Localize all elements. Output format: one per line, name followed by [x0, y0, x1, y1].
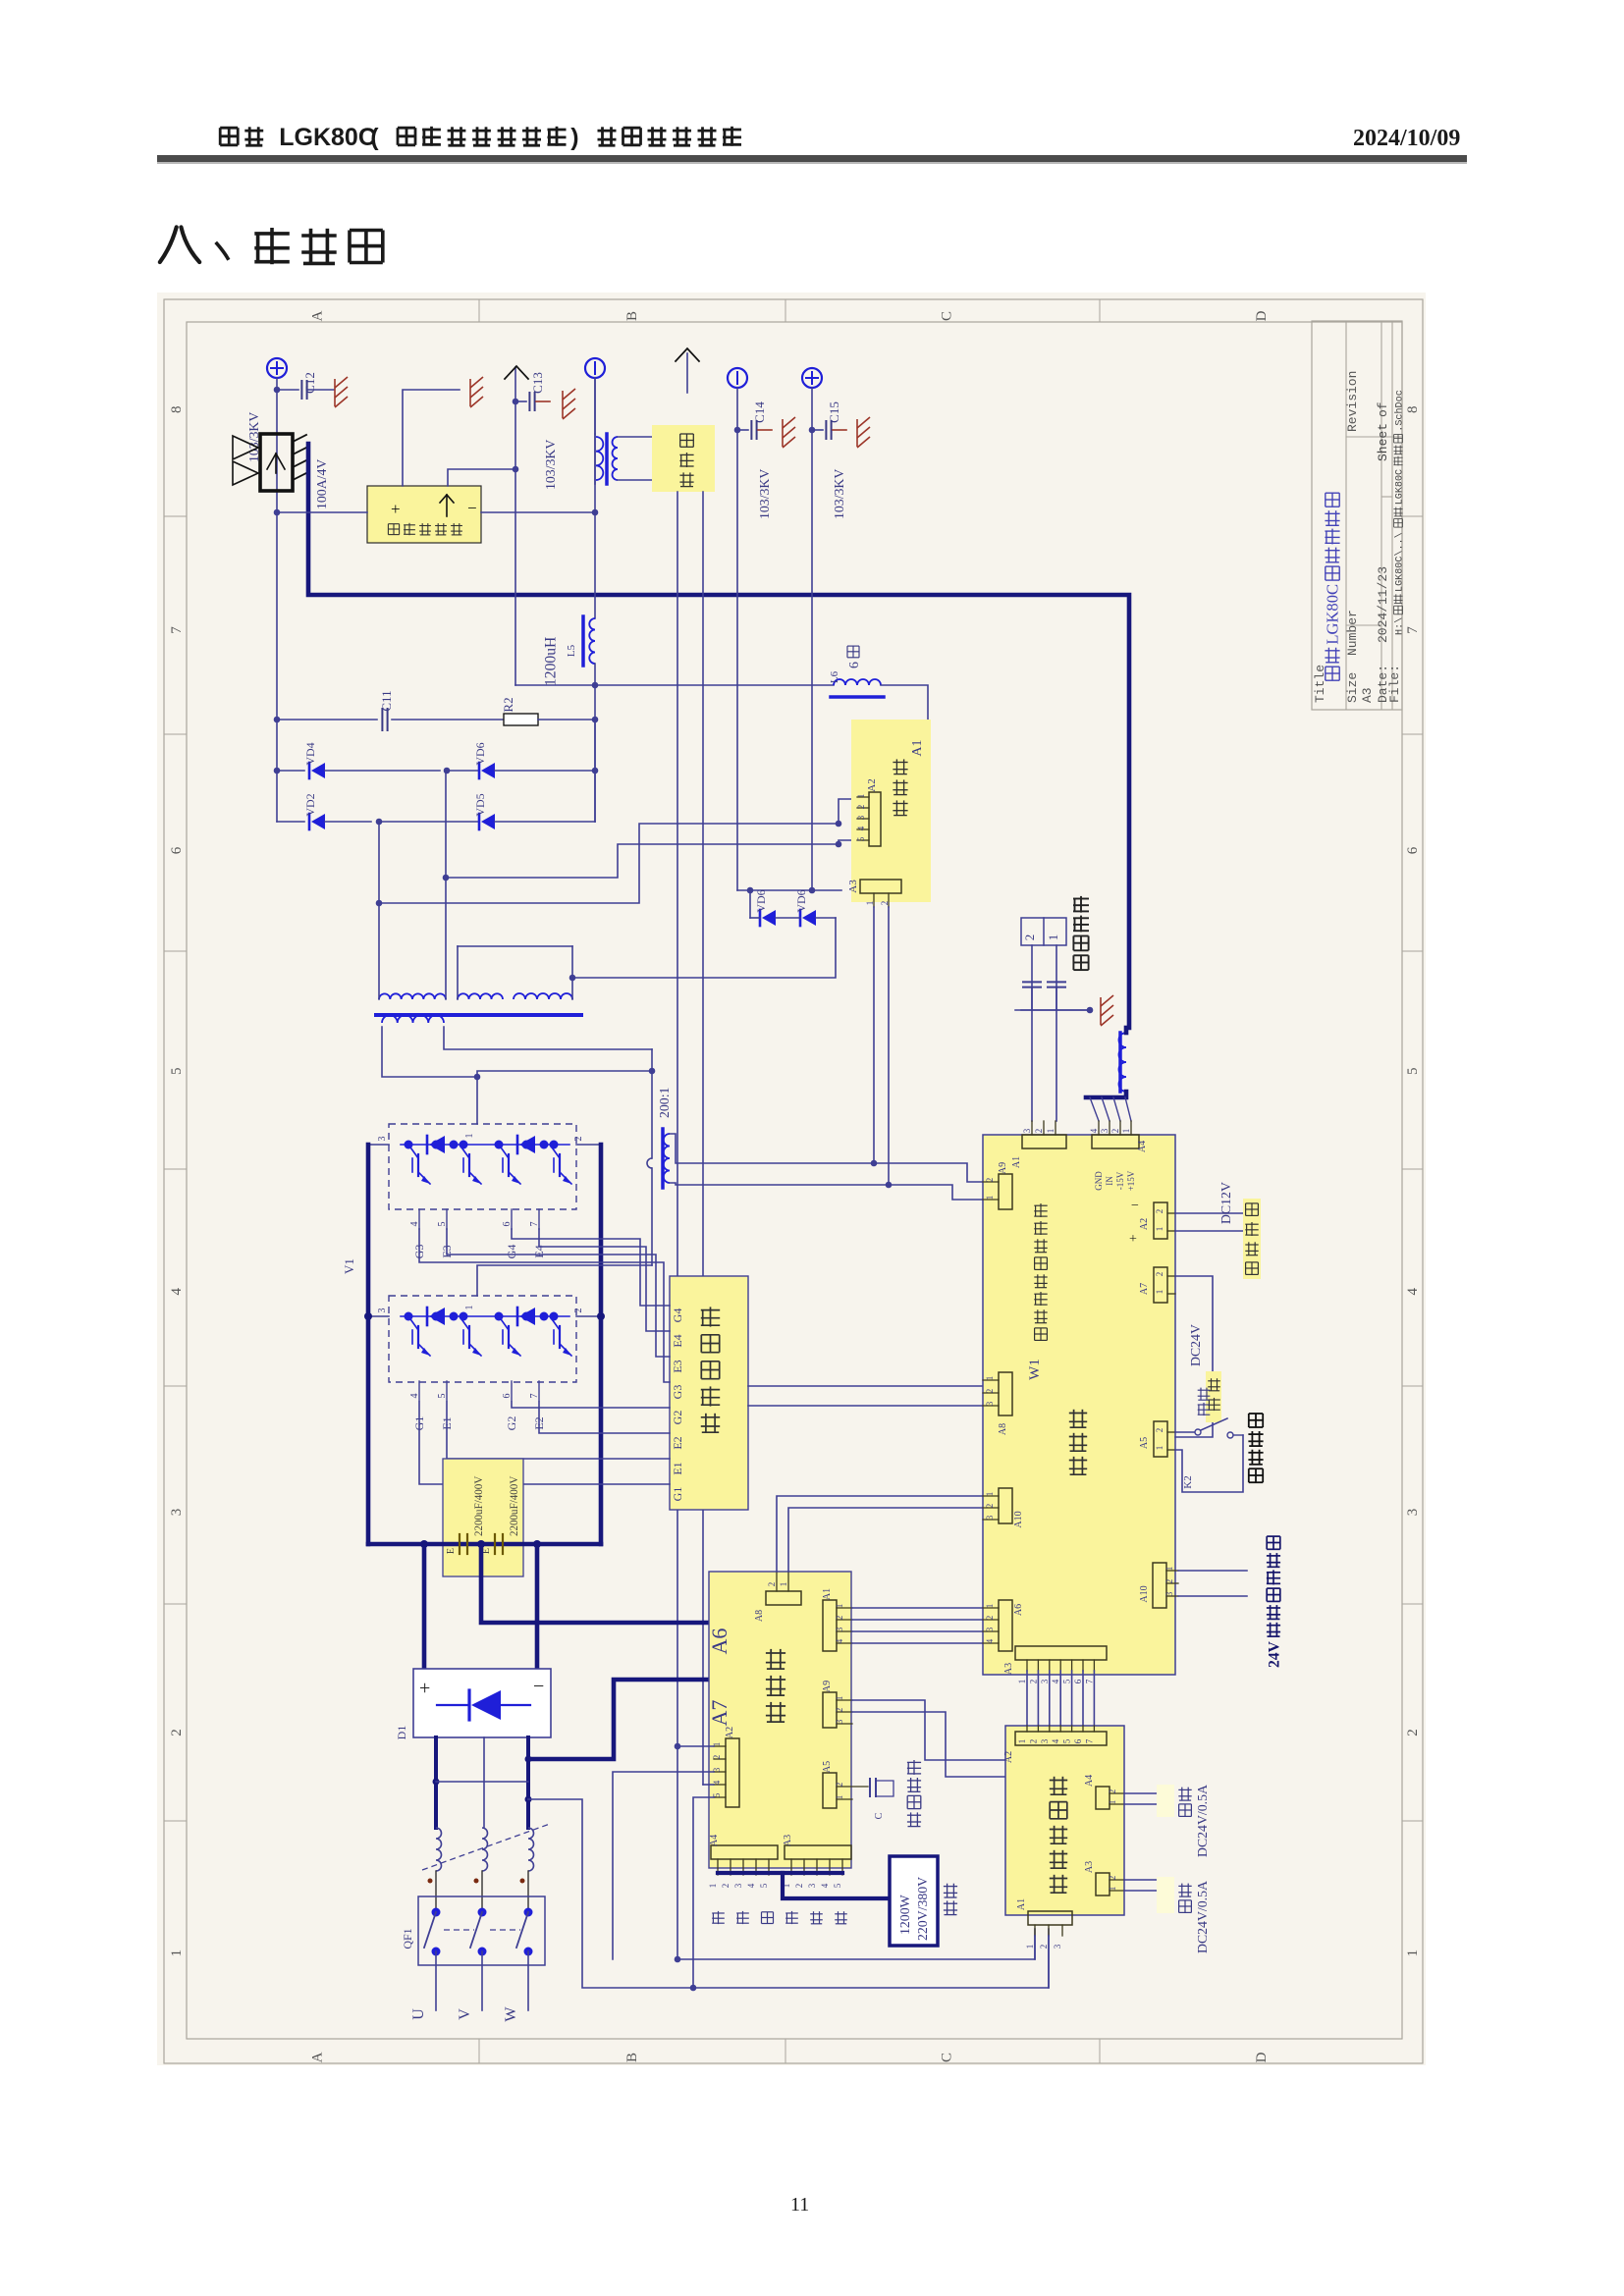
wire main A3 to PSU A2	[1049, 1671, 1051, 1726]
svg-text:4: 4	[856, 826, 866, 830]
svg-text:7: 7	[1084, 1738, 1094, 1743]
svg-text:7: 7	[529, 1222, 540, 1227]
svg-text:3: 3	[1040, 1679, 1050, 1683]
wire main A3 to PSU A2	[1037, 1671, 1039, 1726]
svg-text:LGK80C: LGK80C	[1395, 469, 1406, 505]
conv board connector A9 right	[823, 1692, 837, 1728]
thick bus from rectifier	[308, 444, 1129, 1028]
transformer tap wires	[378, 822, 380, 999]
svg-text:A5: A5	[822, 1761, 833, 1773]
conv board connector A5 right	[823, 1773, 837, 1808]
svg-text:6: 6	[846, 662, 861, 668]
conversion board 转换板	[709, 1572, 851, 1868]
svg-text:2: 2	[1108, 1789, 1117, 1794]
diode inside D1	[467, 1690, 470, 1720]
main board connector A10 right	[1153, 1563, 1166, 1608]
svg-text:1200W: 1200W	[897, 1895, 912, 1935]
svg-text:1: 1	[464, 1134, 475, 1139]
wire PSU A1 pin2 down	[1048, 1936, 1050, 1988]
plus output terminal	[267, 358, 287, 378]
thermal switch K2	[1175, 1431, 1194, 1433]
svg-text:2: 2	[573, 1137, 584, 1142]
module1 pin1 wire to CT	[477, 1071, 651, 1124]
svg-text:2: 2	[985, 1616, 995, 1621]
svg-text:1: 1	[1405, 1949, 1421, 1957]
svg-text:Revision: Revision	[1345, 371, 1360, 432]
svg-text:2: 2	[1108, 1876, 1117, 1881]
svg-text:1: 1	[1108, 1800, 1117, 1805]
svg-text:6: 6	[169, 846, 185, 854]
svg-text:VD6: VD6	[473, 742, 487, 765]
main board connector A7 right	[1154, 1267, 1167, 1303]
socket filter cap 1	[1023, 981, 1041, 983]
IGBT transistor pair	[408, 1145, 418, 1158]
module2 gate wires to driver board	[512, 1402, 670, 1408]
svg-text:2024/11/23: 2024/11/23	[1376, 566, 1390, 643]
svg-text:−: −	[1131, 1199, 1139, 1213]
module pin 2	[576, 1144, 601, 1146]
module bottom pins	[418, 1381, 420, 1401]
svg-text:4: 4	[1051, 1679, 1060, 1683]
thick pump bus under connectors	[718, 1871, 842, 1875]
svg-text:2: 2	[712, 1755, 722, 1760]
wire arc board A3 pin2 down	[888, 907, 890, 1185]
svg-text:D: D	[1254, 2052, 1270, 2062]
switching PSU board 开关电源板	[1005, 1726, 1124, 1915]
svg-text:2: 2	[985, 1389, 995, 1394]
svg-text:+: +	[1129, 1232, 1137, 1247]
conv board connector A8 top	[766, 1591, 801, 1605]
wire socket pin1 down to main board	[1056, 945, 1057, 1121]
svg-text:2: 2	[985, 1504, 995, 1509]
svg-text:6: 6	[502, 1222, 513, 1227]
diode VD6a	[444, 768, 451, 774]
frame inner border	[187, 322, 1402, 2039]
svg-text:4: 4	[409, 1222, 420, 1227]
svg-text:2: 2	[1028, 1739, 1038, 1744]
plus terminal 2	[802, 368, 822, 388]
wire conv A9 pin1 to PSU	[852, 1700, 1005, 1760]
svg-text:): )	[570, 124, 578, 151]
svg-text:4: 4	[1089, 1128, 1099, 1133]
thermal switch return wire	[1175, 1435, 1243, 1492]
wires A2 to HF control	[1175, 1212, 1243, 1214]
svg-text:3: 3	[985, 1401, 995, 1406]
wire arc board A3 pin1 down	[873, 907, 875, 1163]
svg-text:C15: C15	[827, 401, 841, 423]
torch electrode antenna C13 line	[514, 367, 516, 469]
wires to fan 1	[1124, 1792, 1157, 1794]
svg-text:G4: G4	[671, 1308, 684, 1323]
thick wire plus to D1	[422, 1544, 427, 1669]
capacitor C14	[737, 429, 748, 431]
svg-text:L5: L5	[566, 644, 577, 657]
svg-text:2: 2	[835, 1783, 844, 1788]
svg-text:1: 1	[835, 1696, 844, 1701]
thick wire to pump	[783, 1873, 891, 1898]
svg-text:-15V: -15V	[1115, 1171, 1125, 1190]
svg-text:2: 2	[1110, 1129, 1120, 1134]
svg-text:A10: A10	[1139, 1585, 1150, 1602]
inductor L5 1200uH	[581, 616, 585, 666]
svg-text:1: 1	[708, 1884, 718, 1889]
svg-text:6: 6	[1073, 1738, 1083, 1743]
CT primary line	[651, 1049, 653, 1158]
wire link row below D1	[436, 1781, 528, 1783]
wires conv A8 up to main board A10	[777, 1496, 983, 1572]
wire HF1 to conv A2 pin1	[677, 1745, 714, 1747]
wire conv A9 pin2 to PSU	[852, 1712, 1005, 1777]
main board connector A4 top	[1092, 1135, 1139, 1148]
svg-text:3: 3	[835, 1627, 844, 1631]
torch tip arrow	[686, 353, 688, 393]
svg-text:3: 3	[807, 1883, 817, 1888]
PSU connector A4 right	[1096, 1787, 1110, 1809]
svg-text:B: B	[624, 311, 640, 321]
svg-text:+: +	[391, 500, 401, 518]
wire C15 line down	[811, 388, 813, 890]
capacitor C 2200uF/400V right	[494, 1534, 496, 1554]
svg-text:H:\: H:\	[1394, 617, 1406, 635]
svg-text:DC24V: DC24V	[1188, 1324, 1203, 1366]
thick wire minus to D1	[535, 1544, 540, 1669]
module pin 2	[576, 1315, 601, 1317]
title block	[1312, 321, 1402, 710]
svg-text:E: E	[446, 1548, 457, 1554]
svg-text:6: 6	[1405, 846, 1421, 854]
document header	[220, 128, 238, 145]
main board connector A2 right	[1154, 1202, 1167, 1239]
svg-text:7: 7	[1405, 626, 1421, 634]
wire R2 to node	[538, 719, 595, 721]
breaker QF1	[418, 1896, 545, 1965]
svg-text:4: 4	[409, 1394, 420, 1399]
thick wire to conversion board A7	[528, 1680, 709, 1759]
svg-text:A10: A10	[1013, 1511, 1024, 1527]
rectifier bridge 100A/4V	[260, 434, 293, 491]
svg-text:7: 7	[169, 626, 185, 634]
svg-text:A3: A3	[847, 880, 859, 893]
aviation socket 航空插座	[1021, 918, 1066, 945]
svg-text:1: 1	[985, 1492, 995, 1497]
wire W tap to pump circuit	[528, 1799, 1049, 1988]
capacitor C13	[513, 399, 519, 405]
svg-text:3: 3	[733, 1883, 743, 1888]
svg-text:1: 1	[1108, 1887, 1117, 1892]
svg-text:A9: A9	[998, 1162, 1008, 1174]
svg-text:1: 1	[1155, 1446, 1164, 1451]
wire L6 to arc board	[881, 685, 928, 720]
svg-text:2: 2	[835, 1616, 844, 1621]
svg-text:103/3KV: 103/3KV	[757, 469, 772, 519]
svg-text:2024/10/09: 2024/10/09	[1353, 126, 1460, 151]
VD6 snubber pair row	[737, 889, 841, 891]
socket filter cap 2	[1048, 981, 1065, 983]
wire VD rows right link	[594, 720, 596, 822]
svg-text:LGK80C\..\: LGK80C\..\	[1394, 532, 1406, 592]
svg-text:A5: A5	[1139, 1437, 1150, 1449]
svg-text:C: C	[939, 311, 954, 321]
wire main A3 to PSU A2	[1026, 1671, 1028, 1726]
svg-text:1: 1	[1025, 1945, 1035, 1949]
main control board 主控板	[983, 1135, 1175, 1675]
PSU connector A3 right	[1096, 1873, 1110, 1896]
svg-text:C11: C11	[379, 690, 394, 711]
svg-text:2: 2	[880, 901, 890, 906]
IGBT module V1 upper dashed box	[389, 1124, 576, 1209]
svg-text:GND: GND	[1094, 1171, 1104, 1191]
main board connector A5 right	[1154, 1421, 1167, 1457]
arc board connector A2	[869, 792, 881, 846]
svg-text:2: 2	[1028, 1680, 1038, 1684]
freewheel diode	[516, 1308, 519, 1325]
svg-text:VD2: VD2	[303, 793, 317, 816]
main board connector A10 left	[999, 1488, 1012, 1523]
diode VD2	[277, 821, 304, 823]
driver distribution board 驱动分配板	[670, 1276, 748, 1510]
svg-text:G2: G2	[671, 1411, 684, 1425]
svg-text:2: 2	[1155, 1272, 1164, 1277]
svg-text:3: 3	[1022, 1128, 1032, 1133]
svg-text:D1: D1	[395, 1726, 408, 1740]
svg-text:A4: A4	[709, 1835, 720, 1846]
main board connector A9 left	[999, 1174, 1012, 1209]
label 气泵	[944, 1900, 957, 1914]
svg-text:1: 1	[1017, 1680, 1027, 1684]
svg-text:3: 3	[1405, 1509, 1421, 1517]
svg-text:24V: 24V	[1266, 1640, 1282, 1668]
svg-text:A1: A1	[1011, 1156, 1022, 1168]
ground at socket	[1101, 995, 1113, 1026]
capacitor C 2200uF/400V left	[459, 1534, 460, 1554]
fan 2 labels	[1179, 1900, 1192, 1913]
svg-text:VD4: VD4	[303, 742, 317, 765]
ground for C12	[335, 377, 348, 407]
resistor R2	[504, 714, 538, 725]
wires reactor to QF1	[435, 1871, 437, 1909]
wire conv A1 to main A6	[852, 1642, 983, 1644]
svg-text:100A/4V: 100A/4V	[314, 459, 329, 509]
terminal U	[435, 1951, 437, 2010]
section heading 八、接线图	[160, 227, 199, 262]
svg-text:A6: A6	[707, 1629, 731, 1655]
conv board connector A1 right	[823, 1600, 837, 1651]
main transformer T1 primary windings	[379, 993, 446, 999]
phase W wire below D1	[526, 1737, 530, 1828]
label 主控板	[1069, 1410, 1087, 1427]
schematic paper background	[157, 293, 1426, 2065]
wire conv A2 pin3 loop	[613, 1772, 714, 1959]
svg-text:8: 8	[169, 406, 185, 414]
conv board connector A2 left	[726, 1738, 739, 1807]
svg-text:1: 1	[779, 1582, 788, 1587]
svg-text:1200uH: 1200uH	[542, 637, 559, 686]
wire C13 line down	[514, 469, 516, 685]
three phase reactor coils	[436, 1828, 442, 1871]
svg-text:G3: G3	[671, 1385, 684, 1400]
wire L5 bottom to VD rows	[594, 664, 596, 822]
svg-text:1: 1	[464, 1306, 475, 1310]
svg-text:A2: A2	[1003, 1751, 1014, 1763]
module1 gate wires to driver board	[512, 1229, 670, 1306]
ground for C13	[563, 389, 575, 419]
phase V wire below D1	[483, 1737, 485, 1828]
svg-text:G4: G4	[505, 1245, 518, 1259]
ground for C14	[783, 417, 795, 448]
module internal bus	[401, 1315, 569, 1317]
PSU connector A1 bottom	[1028, 1911, 1072, 1925]
svg-text:4: 4	[746, 1883, 756, 1888]
svg-text:103/3KV: 103/3KV	[832, 469, 846, 519]
diode VD5	[376, 819, 383, 826]
svg-text:DC24V/0.5A: DC24V/0.5A	[1195, 1785, 1210, 1857]
svg-text:A2: A2	[1139, 1218, 1150, 1230]
svg-text:4: 4	[1051, 1738, 1060, 1743]
svg-text:5: 5	[759, 1883, 769, 1888]
ground near snubber	[470, 377, 483, 407]
staircase wire S1 to arc board pin1	[446, 840, 857, 878]
freewheel diode	[426, 1308, 429, 1325]
capacitor C15	[812, 429, 823, 431]
svg-text:3: 3	[1100, 1128, 1110, 1133]
svg-text:2: 2	[573, 1308, 584, 1313]
svg-text:1: 1	[1046, 1129, 1056, 1134]
svg-text:B: B	[624, 2053, 640, 2062]
start capacitor 启动电容	[869, 1779, 871, 1796]
svg-text:2: 2	[169, 1729, 185, 1736]
svg-text:2: 2	[835, 1708, 844, 1713]
staircase wire S2 to arc board pin5	[379, 799, 857, 903]
svg-text:1: 1	[1121, 1129, 1131, 1134]
wire HF1 line bottom to PSU A1 row	[677, 1929, 1035, 1959]
svg-text:E4: E4	[671, 1334, 684, 1347]
wire snubber top2 to C13 line	[448, 469, 515, 486]
svg-text:3: 3	[1053, 1944, 1062, 1949]
svg-text:V1: V1	[342, 1258, 356, 1274]
wire A7 to gas valve	[1175, 1276, 1213, 1371]
wire conv A2 pin5 down	[693, 1797, 714, 1988]
svg-text:1: 1	[1046, 934, 1060, 941]
svg-text:1: 1	[1155, 1227, 1164, 1232]
svg-text:200:1: 200:1	[657, 1087, 672, 1118]
wire snubber top1 to ground	[403, 390, 460, 486]
svg-text:A: A	[309, 2052, 325, 2062]
svg-text:5: 5	[1062, 1738, 1072, 1743]
svg-text:K2: K2	[1182, 1475, 1194, 1488]
freewheel diode	[426, 1136, 429, 1153]
svg-text:A9: A9	[822, 1681, 833, 1692]
svg-text:4: 4	[820, 1883, 830, 1888]
wire snubber left	[277, 511, 367, 513]
svg-text:A8: A8	[754, 1610, 765, 1622]
svg-text:3: 3	[169, 1509, 185, 1517]
wire minus to HF transformer	[594, 378, 596, 434]
IGBT transistor pair	[499, 1145, 509, 1158]
svg-text:4: 4	[835, 1638, 844, 1643]
module pin 3	[368, 1144, 389, 1146]
wire main A3 to PSU A2	[1059, 1671, 1061, 1726]
svg-text:3: 3	[985, 1627, 995, 1631]
svg-text:G1: G1	[671, 1487, 684, 1502]
breaker pole	[432, 1908, 441, 1917]
svg-text:1: 1	[1164, 1567, 1174, 1572]
conv board connector A4 bottom	[711, 1845, 778, 1859]
wire HF board outputs down	[677, 492, 678, 1959]
driver board wires to main board A8	[748, 1385, 983, 1387]
HF transformer T2	[594, 434, 596, 484]
svg-text:1: 1	[985, 1376, 995, 1381]
diode VD6b pair right	[799, 910, 802, 926]
svg-text:QF1: QF1	[401, 1928, 414, 1949]
fan 2 box	[1157, 1877, 1174, 1913]
electrolytic capacitor box	[443, 1459, 523, 1576]
wire C14 line down	[736, 388, 738, 890]
capacitor C11	[276, 719, 377, 721]
svg-text:−: −	[533, 1676, 544, 1697]
HF coupling coil on thick bus	[1118, 1033, 1122, 1092]
fan 1 labels	[1179, 1804, 1192, 1817]
wires A10 to relay	[1178, 1570, 1247, 1572]
svg-text:DC24V/0.5A: DC24V/0.5A	[1195, 1881, 1210, 1953]
IGBT transistor pair	[408, 1316, 418, 1330]
svg-text:Size: Size	[1345, 672, 1360, 703]
breaker dashed links	[444, 1929, 474, 1931]
svg-text:E2: E2	[671, 1436, 684, 1449]
svg-text:.SchDoc: .SchDoc	[1394, 390, 1406, 431]
module internal bus	[401, 1144, 569, 1146]
svg-text:C14: C14	[752, 401, 767, 423]
main transformer secondary winding	[382, 1015, 444, 1023]
fan 1 box	[1157, 1785, 1174, 1817]
diode VD4	[277, 770, 304, 772]
CT secondary wires to main board A9	[670, 1134, 983, 1182]
conv board connector A3 bottom	[785, 1845, 851, 1859]
svg-text:1: 1	[835, 1795, 844, 1800]
wire plus terminal down	[276, 378, 278, 822]
wire main A3 to PSU A2	[1082, 1671, 1084, 1726]
HF control label box 高频控制	[1243, 1199, 1261, 1279]
wires to fan 2	[1124, 1879, 1157, 1881]
module2 pin1 wire to CT	[477, 1265, 652, 1296]
terminal V	[481, 1951, 483, 2010]
svg-text:6: 6	[502, 1394, 513, 1399]
svg-text:A3: A3	[1360, 687, 1375, 703]
capacitor C12	[277, 389, 298, 391]
wire color labels	[712, 1911, 725, 1924]
svg-text:W1: W1	[1027, 1359, 1043, 1380]
svg-text:3: 3	[377, 1137, 388, 1142]
svg-text:1: 1	[856, 794, 866, 799]
svg-text:A4: A4	[1137, 1141, 1148, 1152]
svg-text:1: 1	[169, 1949, 185, 1957]
arc board connector A3	[860, 880, 901, 893]
svg-text:2: 2	[1164, 1579, 1174, 1584]
svg-text:E1: E1	[671, 1462, 684, 1474]
svg-text:2: 2	[1155, 1209, 1164, 1214]
svg-text:2: 2	[1022, 934, 1037, 941]
svg-text:(: (	[370, 124, 379, 151]
svg-text:7: 7	[1084, 1679, 1094, 1683]
svg-text:File:: File:	[1387, 665, 1402, 703]
svg-text:2: 2	[1405, 1729, 1421, 1736]
VD6 return to transformer tap	[572, 918, 836, 978]
svg-text:3: 3	[985, 1515, 995, 1520]
svg-text:5: 5	[1405, 1067, 1421, 1075]
breaker pole	[524, 1908, 533, 1917]
svg-text:220V/380V: 220V/380V	[915, 1877, 930, 1941]
svg-text:3: 3	[1040, 1738, 1050, 1743]
svg-text:of: of	[1376, 401, 1390, 417]
